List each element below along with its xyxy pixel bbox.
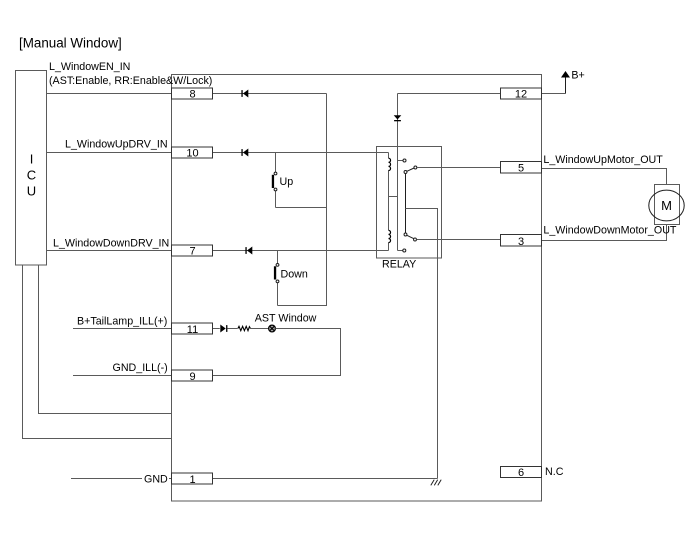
svg-text:10: 10 <box>186 148 198 160</box>
svg-text:8: 8 <box>189 89 195 101</box>
svg-text:Up: Up <box>280 176 294 188</box>
svg-text:L_WindowUpDRV_IN: L_WindowUpDRV_IN <box>65 139 168 151</box>
svg-text:[Manual Window]: [Manual Window] <box>19 36 122 51</box>
svg-text:N.C: N.C <box>545 466 564 478</box>
svg-text:9: 9 <box>189 371 195 383</box>
svg-text:12: 12 <box>515 89 527 101</box>
svg-text:U: U <box>27 184 36 199</box>
svg-text:GND_ILL(-): GND_ILL(-) <box>113 362 168 374</box>
svg-text:3: 3 <box>518 236 524 248</box>
svg-text:Down: Down <box>281 269 308 281</box>
svg-text:AST Window: AST Window <box>255 313 317 325</box>
svg-text:6: 6 <box>518 467 524 479</box>
svg-text:B+TailLamp_ILL(+): B+TailLamp_ILL(+) <box>77 315 167 327</box>
svg-text:(AST:Enable, RR:Enable&W/Lock): (AST:Enable, RR:Enable&W/Lock) <box>49 75 212 87</box>
svg-text:L_WindowDownDRV_IN: L_WindowDownDRV_IN <box>53 237 169 249</box>
svg-text:C: C <box>27 168 36 183</box>
svg-text:I: I <box>30 152 34 167</box>
svg-text:RELAY: RELAY <box>382 259 416 271</box>
svg-text:B+: B+ <box>571 70 584 82</box>
svg-text:1: 1 <box>189 474 195 486</box>
svg-text:GND: GND <box>144 473 168 485</box>
svg-text:11: 11 <box>187 324 198 336</box>
svg-text:M: M <box>661 198 672 213</box>
svg-text:L_WindowEN_IN: L_WindowEN_IN <box>49 61 130 73</box>
svg-text:L_WindowDownMotor_OUT: L_WindowDownMotor_OUT <box>543 225 677 237</box>
svg-text:7: 7 <box>189 246 195 258</box>
svg-text:5: 5 <box>518 163 524 175</box>
svg-text:L_WindowUpMotor_OUT: L_WindowUpMotor_OUT <box>543 154 663 166</box>
